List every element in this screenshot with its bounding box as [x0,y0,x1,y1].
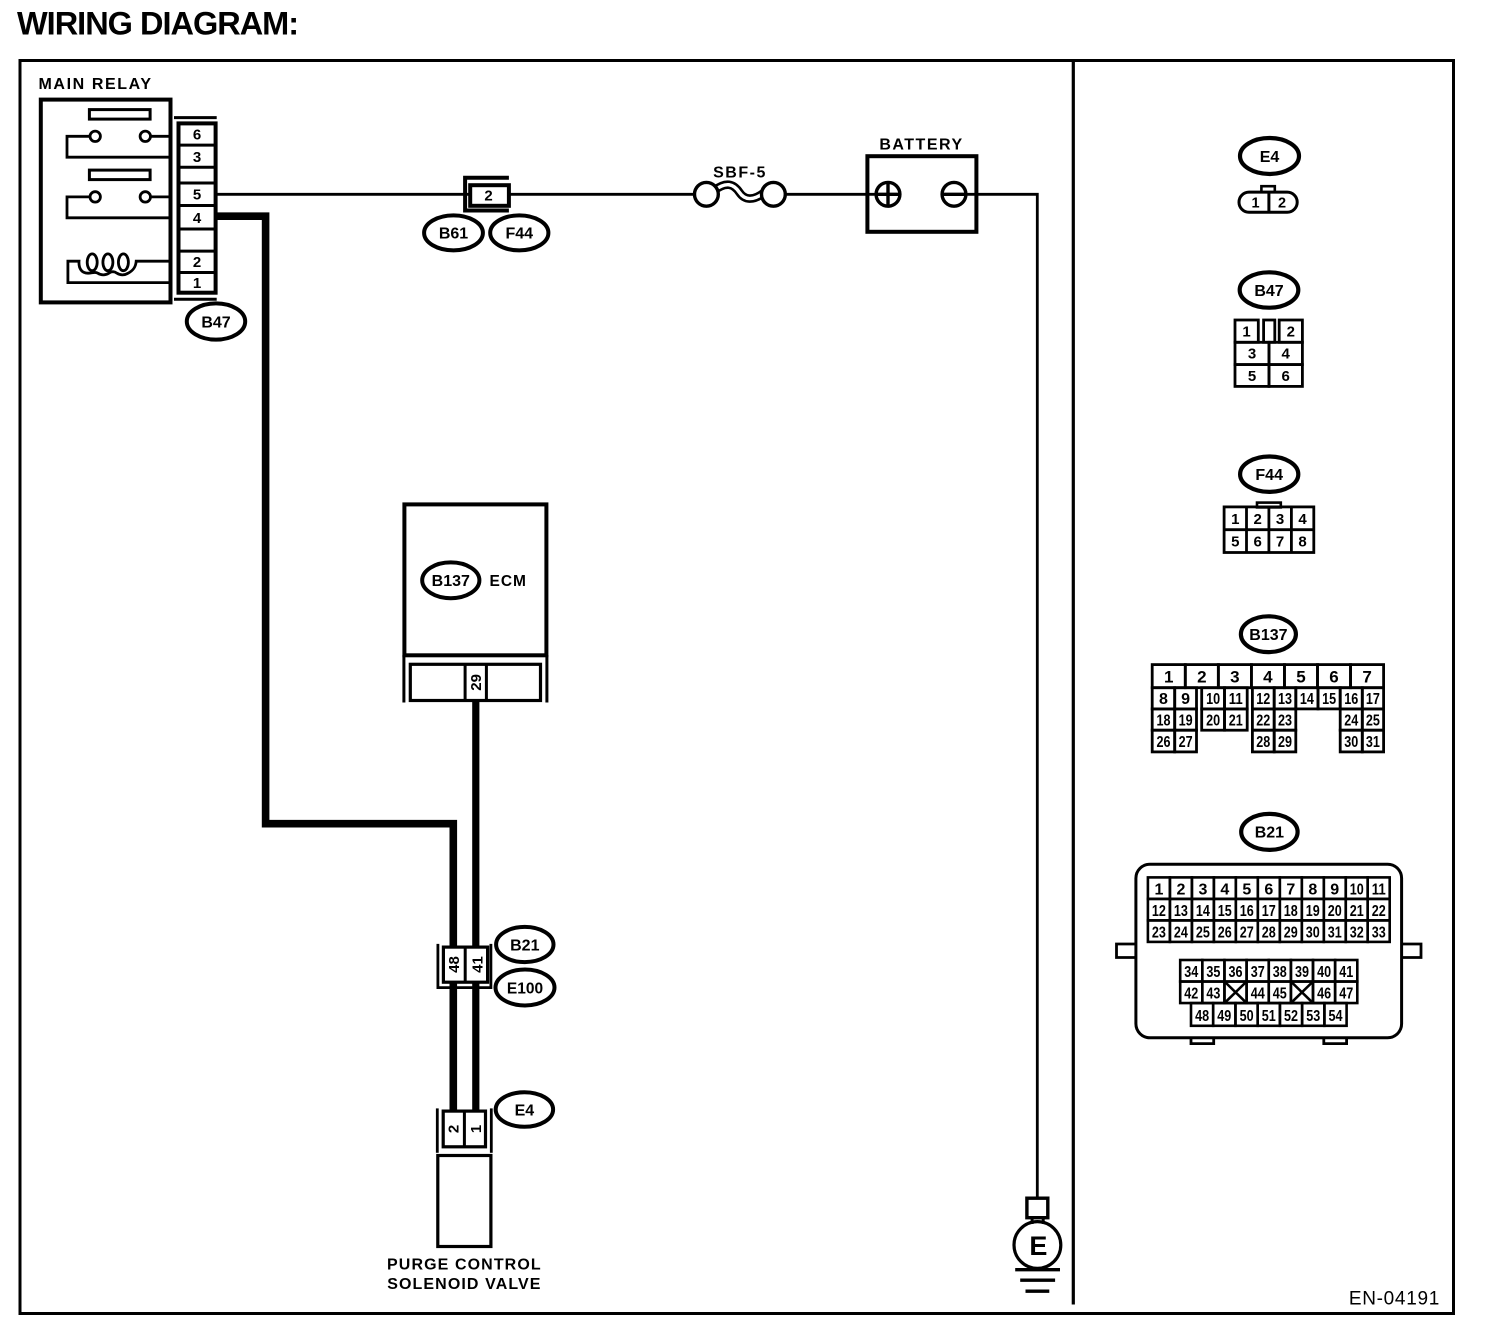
relay contact bar 2 [89,170,150,180]
svg-text:31: 31 [1328,925,1342,942]
svg-text:35: 35 [1206,964,1220,981]
battery box [867,156,976,232]
svg-text:2: 2 [1278,196,1286,212]
svg-text:39: 39 [1295,964,1309,981]
ground hatch lines [1015,1270,1060,1292]
svg-text:25: 25 [1196,925,1210,942]
svg-text:40: 40 [1317,964,1331,981]
svg-text:9: 9 [1181,691,1190,708]
svg-text:15: 15 [1322,691,1336,708]
wire relay pin 5 to fuse SBF-5 [217,193,696,196]
svg-text:26: 26 [1218,925,1232,942]
svg-text:5: 5 [1296,667,1305,686]
svg-text:11: 11 [1229,691,1243,708]
ECM box [404,504,546,655]
connector label B137 ellipse [422,562,479,598]
fuse terminal circle right [762,182,786,206]
svg-text:17: 17 [1366,691,1380,708]
right panel B47 connector face [1235,320,1302,386]
svg-text:2: 2 [1287,323,1295,340]
svg-text:3: 3 [1198,882,1207,899]
svg-text:B47: B47 [201,314,230,331]
svg-text:1: 1 [1164,667,1173,686]
svg-text:14: 14 [1196,903,1210,920]
svg-text:33: 33 [1372,925,1386,942]
battery negative terminal [942,182,966,206]
svg-text:46: 46 [1317,986,1331,1003]
panel divider line [1072,61,1075,1305]
svg-text:29: 29 [468,674,485,691]
svg-text:E4: E4 [1260,149,1280,166]
wire fuse to battery [785,193,877,196]
svg-text:19: 19 [1179,712,1193,729]
svg-text:23: 23 [1152,925,1166,942]
svg-text:EN-04191: EN-04191 [1349,1288,1440,1309]
wire switch2 left terminal to pin 4 [67,197,171,218]
svg-text:16: 16 [1240,903,1254,920]
svg-text:MAIN RELAY: MAIN RELAY [39,76,153,93]
connector B47 top lip [174,116,217,119]
svg-text:48: 48 [1195,1008,1209,1025]
svg-text:41: 41 [1339,964,1353,981]
svg-text:21: 21 [1229,712,1243,729]
connector B47 pin column outline [179,123,216,292]
svg-text:2: 2 [1197,667,1206,686]
wire switch1 right terminal to pin 6 [151,135,172,138]
svg-text:32: 32 [1350,925,1364,942]
svg-text:19: 19 [1306,903,1320,920]
right panel E4 cell divider [1267,192,1270,212]
svg-text:36: 36 [1229,964,1243,981]
svg-text:23: 23 [1278,712,1292,729]
svg-text:21: 21 [1350,903,1364,920]
svg-text:5: 5 [1231,534,1239,551]
svg-text:18: 18 [1284,903,1298,920]
relay contact terminal circles row 2 [90,192,151,202]
right panel connector F44 ellipse [1240,457,1298,492]
svg-text:42: 42 [1184,986,1198,1003]
wire coil to pin 1 [67,261,172,282]
svg-text:E: E [1029,1231,1047,1261]
svg-text:27: 27 [1179,734,1193,751]
svg-text:4: 4 [1298,511,1307,528]
svg-text:9: 9 [1330,882,1339,899]
svg-text:34: 34 [1184,964,1198,981]
svg-text:5: 5 [1242,882,1251,899]
svg-text:WIRING DIAGRAM:: WIRING DIAGRAM: [17,6,298,42]
svg-text:B21: B21 [1255,825,1284,842]
svg-text:E100: E100 [507,980,543,997]
svg-text:11: 11 [1372,882,1386,899]
svg-text:E4: E4 [515,1102,535,1119]
fuse wavy link [714,185,764,199]
connector E4 box [443,1111,485,1147]
right panel B21 housing left foot [1191,1038,1214,1044]
svg-text:52: 52 [1284,1008,1298,1025]
B21/E100 cell divider [464,947,467,982]
connector label B21 ellipse [496,927,553,962]
svg-text:6: 6 [1282,368,1290,385]
svg-text:6: 6 [193,127,201,144]
svg-text:SOLENOID VALVE: SOLENOID VALVE [387,1276,541,1293]
svg-text:15: 15 [1218,903,1232,920]
svg-text:44: 44 [1251,986,1265,1003]
right panel B21 housing left wing [1117,944,1136,958]
svg-text:B137: B137 [1249,627,1287,644]
svg-text:20: 20 [1206,712,1220,729]
svg-text:10: 10 [1350,882,1364,899]
right panel connector E4 ellipse [1240,138,1299,174]
right panel connector B137 ellipse [1241,616,1296,652]
right panel connector B47 ellipse [1240,272,1299,307]
svg-text:53: 53 [1306,1008,1320,1025]
connector label B47 ellipse [187,303,245,339]
svg-text:4: 4 [1220,882,1229,899]
svg-text:2: 2 [1176,882,1185,899]
wire E100 pin 41 to E4 pin 1 [472,983,479,1111]
connector B47 cell dividers [179,145,216,272]
svg-text:1: 1 [468,1125,485,1133]
svg-text:50: 50 [1240,1008,1254,1025]
right panel B21 connector face top grid (pins 1-33) [1148,877,1390,942]
svg-text:B137: B137 [432,573,470,590]
svg-text:3: 3 [1230,667,1239,686]
purge control solenoid valve body [438,1156,491,1247]
right panel connector B21 ellipse [1241,814,1297,850]
ECM pin strip dividers [465,664,486,700]
right panel B21 connector face bottom grid (pins 48-54) [1191,1003,1347,1026]
svg-text:16: 16 [1344,691,1358,708]
right panel B137 connector face row 2 (pins 8-17) [1152,688,1383,709]
svg-text:3: 3 [193,149,201,166]
inline connector pin 2 box [470,185,509,206]
right panel B21 housing right foot [1324,1038,1347,1044]
svg-text:20: 20 [1328,903,1342,920]
thick wire relay pin 4 to connector B21 pin 48 [217,216,454,946]
svg-text:ECM: ECM [490,573,527,590]
wire ECM pin 29 down to connector B21 pin 41 [472,701,479,947]
connector label E100 ellipse [496,970,555,1006]
svg-text:BATTERY: BATTERY [879,136,963,153]
svg-text:SBF-5: SBF-5 [713,165,767,182]
svg-text:1: 1 [1154,882,1163,899]
svg-text:6: 6 [1264,882,1273,899]
svg-text:47: 47 [1339,986,1353,1003]
connector label F44 ellipse [490,215,548,250]
connector B47 bottom lip [174,298,217,301]
svg-text:1: 1 [1231,511,1239,528]
svg-text:27: 27 [1240,925,1254,942]
svg-text:43: 43 [1206,986,1220,1003]
connector label E4 ellipse [496,1092,553,1127]
right panel B137 connector face row 4 (pins 26-31) [1152,730,1383,752]
svg-text:41: 41 [469,956,486,973]
svg-text:14: 14 [1300,691,1314,708]
right panel B137 connector face row 1 (pins 1-7) [1152,665,1383,688]
PURGE CONTROL SOLENOID VALVE label [387,1257,542,1294]
svg-text:2: 2 [193,254,201,271]
svg-text:7: 7 [1286,882,1295,899]
relay coil [67,254,172,275]
ground circle E [1014,1222,1061,1269]
svg-text:28: 28 [1262,925,1276,942]
inline connector B21/E100 outer bracket [438,944,491,988]
svg-text:31: 31 [1366,734,1380,751]
svg-text:25: 25 [1366,712,1380,729]
svg-text:38: 38 [1273,964,1287,981]
svg-text:6: 6 [1254,534,1262,551]
svg-text:48: 48 [446,956,463,973]
svg-text:10: 10 [1206,691,1220,708]
svg-text:30: 30 [1344,734,1358,751]
E4 cell divider [463,1111,466,1147]
svg-text:22: 22 [1372,903,1386,920]
svg-text:B21: B21 [510,937,539,954]
wire B21 pin 48 to E4 pin 2 [449,983,457,1111]
svg-text:18: 18 [1157,712,1171,729]
svg-text:PURGE CONTROL: PURGE CONTROL [387,1257,542,1274]
svg-text:30: 30 [1306,925,1320,942]
svg-text:7: 7 [1276,534,1284,551]
ground E terminal box [1027,1198,1048,1218]
right panel F44 connector face [1224,507,1314,553]
svg-text:3: 3 [1276,511,1284,528]
ECM side wall extensions [404,655,547,703]
svg-text:45: 45 [1273,986,1287,1003]
svg-text:17: 17 [1262,903,1276,920]
ground neck [1032,1218,1043,1224]
svg-text:1: 1 [193,275,201,292]
svg-text:1: 1 [1242,323,1250,340]
svg-text:13: 13 [1278,691,1292,708]
svg-text:4: 4 [1282,346,1291,363]
svg-text:49: 49 [1217,1008,1231,1025]
right panel B21 housing right wing [1402,944,1421,958]
svg-text:4: 4 [193,210,202,227]
svg-text:22: 22 [1256,712,1270,729]
wire switch2 right terminal to pin 5 [151,195,172,198]
svg-text:26: 26 [1157,734,1171,751]
main relay box [41,100,171,303]
svg-text:13: 13 [1174,903,1188,920]
right panel B137 connector face row 3 (pins 18-25) [1152,709,1383,730]
svg-text:37: 37 [1251,964,1265,981]
svg-text:28: 28 [1256,734,1270,751]
svg-text:B61: B61 [439,226,468,243]
right panel E4 connector face [1239,192,1297,212]
svg-text:5: 5 [1248,368,1256,385]
connector E4 outer bracket [437,1108,491,1152]
svg-text:2: 2 [1254,511,1262,528]
relay contact bar 1 [89,110,150,120]
right panel B21 housing [1136,864,1402,1038]
svg-text:F44: F44 [1255,467,1283,484]
svg-text:3: 3 [1248,346,1256,363]
svg-text:29: 29 [1284,925,1298,942]
right panel F44 connector tab [1257,503,1281,508]
svg-text:8: 8 [1298,534,1306,551]
svg-text:6: 6 [1329,667,1338,686]
svg-text:8: 8 [1159,691,1168,708]
svg-text:29: 29 [1278,734,1292,751]
svg-text:8: 8 [1308,882,1317,899]
svg-text:12: 12 [1256,691,1270,708]
battery positive terminal [876,182,900,206]
wire switch1 left terminal to pin 3 [67,136,171,157]
connector label B61 ellipse [424,215,483,250]
svg-text:4: 4 [1263,667,1273,686]
svg-text:F44: F44 [506,226,534,243]
svg-text:12: 12 [1152,903,1166,920]
svg-text:B47: B47 [1254,283,1283,300]
relay contact terminal circles row 1 [90,131,151,141]
fuse terminal circle left [695,182,719,206]
svg-text:5: 5 [193,187,201,204]
svg-text:51: 51 [1262,1008,1276,1025]
right panel E4 connector face tab [1261,186,1274,192]
svg-text:24: 24 [1174,925,1188,942]
inline connector B21/E100 box [443,947,487,982]
right panel B21 connector face mid grid (pins 34-47) [1180,960,1357,1003]
inline connector bracket (B61/F44) [465,178,509,211]
svg-text:2: 2 [446,1125,463,1133]
ECM pin strip [410,664,540,700]
svg-text:54: 54 [1329,1008,1343,1025]
wire battery negative to ground E [966,194,1037,1197]
svg-text:1: 1 [1251,196,1259,212]
svg-text:24: 24 [1344,712,1358,729]
svg-text:2: 2 [484,188,492,205]
svg-text:7: 7 [1362,667,1371,686]
